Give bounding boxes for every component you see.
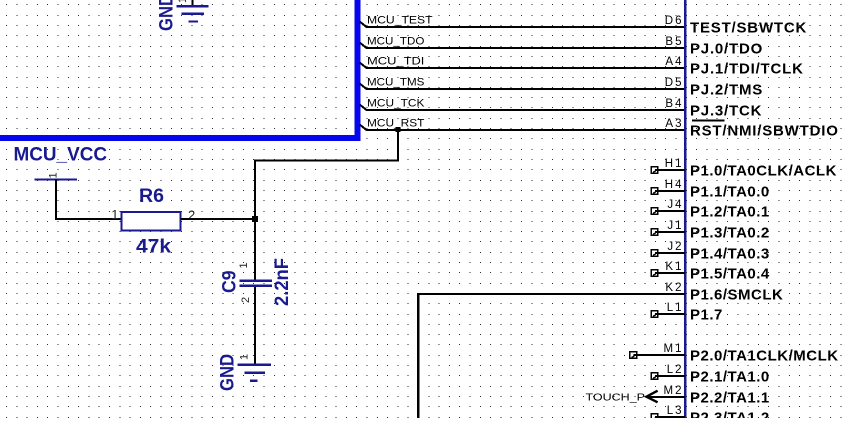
svg-text:1: 1 (239, 354, 251, 360)
svg-text:P1.6/SMCLK: P1.6/SMCLK (690, 287, 783, 304)
svg-text:L3: L3 (667, 405, 684, 417)
svg-text:1: 1 (177, 0, 189, 3)
svg-text:1: 1 (238, 262, 250, 268)
svg-text:MCU_TMS: MCU_TMS (367, 76, 424, 88)
svg-text:M2: M2 (664, 385, 684, 397)
wire MCU_RST (bus entry to pin A3) (360, 117, 685, 130)
wire MCU_TMS (bus entry to pin D5) (360, 76, 685, 89)
svg-text:PJ.3/TCK: PJ.3/TCK (690, 103, 762, 120)
wire MCU_TCK (bus entry to pin B4) (360, 97, 685, 110)
svg-text:MCU_VCC: MCU_VCC (14, 145, 108, 166)
pin M1 P2.0/TA1CLK/MCLK (630, 343, 839, 365)
svg-text:P1.3/TA0.2: P1.3/TA0.2 (690, 225, 770, 242)
svg-text:D6: D6 (665, 15, 684, 27)
ground (top) (157, 0, 209, 31)
svg-text:2.2nF: 2.2nF (272, 258, 293, 306)
net label TOUCH_P with port arrow (586, 391, 658, 404)
svg-text:R6: R6 (139, 186, 164, 207)
svg-text:P1.0/TA0CLK/ACLK: P1.0/TA0CLK/ACLK (690, 163, 837, 180)
resistor R6 47k (111, 186, 195, 258)
svg-text:2: 2 (188, 208, 195, 223)
svg-text:MCU_TCK: MCU_TCK (367, 97, 425, 109)
pin M2 P2.2/TA1.1 (648, 385, 770, 407)
svg-text:P2.0/TA1CLK/MCLK: P2.0/TA1CLK/MCLK (690, 348, 839, 365)
svg-text:B4: B4 (665, 98, 683, 110)
pin L3 P2.3/TA1.2 (651, 405, 770, 423)
svg-text:J4: J4 (667, 199, 683, 211)
svg-text:J1: J1 (667, 220, 683, 232)
pin J1 P1.3/TA0.2 (651, 220, 770, 242)
pin H4 P1.1/TA0.0 (651, 179, 770, 201)
svg-text:1: 1 (48, 172, 60, 178)
pin J4 P1.2/TA0.1 (651, 199, 770, 221)
svg-text:D5: D5 (665, 77, 684, 89)
svg-text:J2: J2 (667, 241, 683, 253)
svg-text:C9: C9 (219, 271, 240, 294)
wire MCU_TEST (bus entry to pin D6) (360, 14, 685, 27)
svg-text:K2: K2 (665, 282, 683, 294)
svg-text:A4: A4 (665, 56, 683, 68)
svg-text:TOUCH_P: TOUCH_P (586, 392, 646, 403)
pin H1 P1.0/TA0CLK/ACLK (651, 158, 837, 180)
pin L2 P2.1/TA1.0 (651, 364, 770, 386)
svg-text:H4: H4 (665, 179, 684, 191)
power flag MCU_VCC (14, 145, 108, 180)
svg-text:PJ.0/TDO: PJ.0/TDO (690, 41, 763, 58)
svg-text:MCU_TDI: MCU_TDI (367, 55, 424, 67)
svg-text:P1.1/TA0.0: P1.1/TA0.0 (690, 184, 770, 201)
svg-text:M1: M1 (664, 343, 684, 355)
wire R6 pin 2 to node (181, 218, 255, 220)
svg-text:RST/NMI/SBWTDIO: RST/NMI/SBWTDIO (690, 123, 839, 140)
svg-text:P1.7: P1.7 (690, 307, 723, 324)
svg-text:B5: B5 (665, 36, 683, 48)
svg-text:L1: L1 (667, 302, 684, 314)
junction on MCU_RST wire (396, 127, 401, 132)
ground (below C9) (218, 354, 272, 391)
pin J2 P1.4/TA0.3 (651, 241, 770, 263)
wire MCU_TDO (bus entry to pin B5) (360, 35, 685, 48)
svg-text:GND: GND (157, 0, 178, 31)
wire MCU_RST to R6/C9 node (255, 130, 398, 219)
svg-text:H1: H1 (665, 158, 684, 170)
svg-text:TEST/SBWTCK: TEST/SBWTCK (690, 20, 807, 37)
svg-text:P1.4/TA0.3: P1.4/TA0.3 (690, 246, 770, 263)
junction R6/C9/RST node (252, 216, 258, 222)
wire MCU_TDI (bus entry to pin A4) (360, 55, 685, 68)
svg-text:P1.2/TA0.1: P1.2/TA0.1 (690, 204, 770, 221)
svg-text:MCU_TDO: MCU_TDO (367, 35, 425, 47)
pin name RST/NMI/SBWTDIO (690, 120, 839, 139)
wire JTAG bus (thick blue) (0, 0, 358, 138)
svg-text:P2.2/TA1.1: P2.2/TA1.1 (690, 390, 770, 407)
svg-text:A3: A3 (665, 118, 683, 130)
svg-text:GND: GND (218, 354, 239, 391)
svg-text:L2: L2 (667, 364, 684, 376)
IC U1 MSP430 body edge (684, 0, 686, 418)
pin K1 P1.5/TA0.4 (651, 261, 770, 283)
svg-text:47k: 47k (136, 237, 171, 258)
pin K2 P1.6/SMCLK (665, 282, 783, 304)
svg-text:P2.3/TA1.2: P2.3/TA1.2 (690, 410, 770, 418)
svg-text:P1.5/TA0.4: P1.5/TA0.4 (690, 266, 770, 283)
svg-text:MCU_TEST: MCU_TEST (367, 14, 433, 26)
wire P1.6/SMCLK to bottom edge (418, 294, 685, 418)
svg-text:PJ.1/TDI/TCLK: PJ.1/TDI/TCLK (690, 61, 804, 78)
svg-text:1: 1 (111, 207, 118, 222)
wire MCU_VCC to R6 pin 1 (56, 180, 121, 220)
pin L1 P1.7 (651, 302, 723, 324)
svg-text:2: 2 (240, 297, 252, 303)
svg-text:PJ.2/TMS: PJ.2/TMS (690, 82, 763, 99)
svg-text:K1: K1 (665, 261, 683, 273)
svg-text:P2.1/TA1.0: P2.1/TA1.0 (690, 369, 770, 386)
capacitor C9 2.2nF (219, 219, 293, 364)
